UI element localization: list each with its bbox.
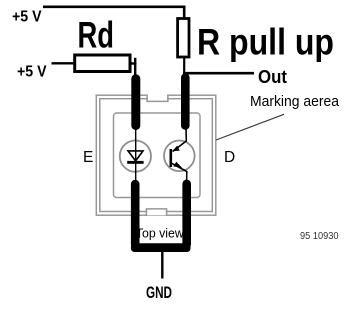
package bottom notch [146, 209, 166, 216]
LED circle D1 [120, 141, 151, 172]
svg-text:+5 V: +5 V [17, 64, 47, 81]
pin emitter top [131, 74, 140, 130]
resistor R pull up [178, 19, 189, 58]
wire +5V top rail [43, 7, 184, 18]
wire resistor to out node [183, 57, 185, 74]
svg-text:R pull up: R pull up [197, 21, 334, 62]
phototransistor circle U1 [164, 141, 195, 172]
svg-text:GND: GND [146, 284, 172, 302]
led cathode bar [127, 161, 143, 164]
wire hook vertical [134, 58, 136, 75]
bottom bar joining pins [131, 243, 191, 252]
pin emitter bottom [131, 180, 140, 249]
svg-text:95 10930: 95 10930 [300, 231, 339, 242]
svg-text:Marking aerea: Marking aerea [250, 94, 340, 110]
pin detector bottom [182, 180, 191, 249]
svg-text:Top view: Top view [136, 227, 185, 241]
package top notch [147, 94, 168, 101]
wire to GND [161, 252, 163, 279]
wire led anode-cathode [135, 127, 137, 181]
transistor base bar [170, 149, 173, 167]
led triangle [128, 151, 143, 161]
svg-text:Out: Out [258, 66, 287, 87]
svg-text:+5 V: +5 V [12, 9, 42, 26]
wire emitter [172, 164, 187, 182]
arrow collector [172, 146, 180, 152]
wire collector [173, 127, 187, 152]
wire Rd to pin hook [130, 62, 136, 64]
wire +5V to Rd [52, 62, 75, 64]
marking callout line [216, 114, 284, 140]
wire Out [183, 72, 254, 75]
package outer outline [96, 95, 216, 215]
svg-text:D: D [224, 149, 235, 166]
package inner square [114, 113, 201, 198]
arrow emitter [173, 162, 182, 168]
resistor Rd [75, 55, 130, 72]
pin detector top [181, 73, 190, 130]
svg-text:Rd: Rd [78, 15, 115, 56]
package inner outline [100, 99, 213, 212]
svg-text:E: E [83, 149, 93, 166]
